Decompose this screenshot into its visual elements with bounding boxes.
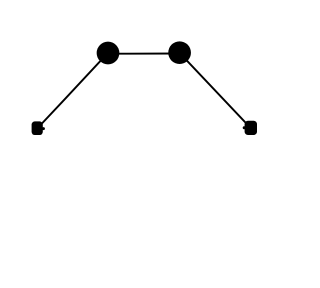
wire: edge S1 to L1 bbox=[37, 53, 108, 129]
node S2 (small node) bbox=[243, 121, 257, 135]
node L2 (large circle) bbox=[168, 41, 191, 64]
node S1 (small node) bbox=[32, 121, 45, 135]
wire: edge L2 to S2 bbox=[180, 53, 251, 128]
wire: edge L1 to L2 bbox=[108, 53, 180, 55]
node L1 (large circle) bbox=[97, 42, 120, 65]
